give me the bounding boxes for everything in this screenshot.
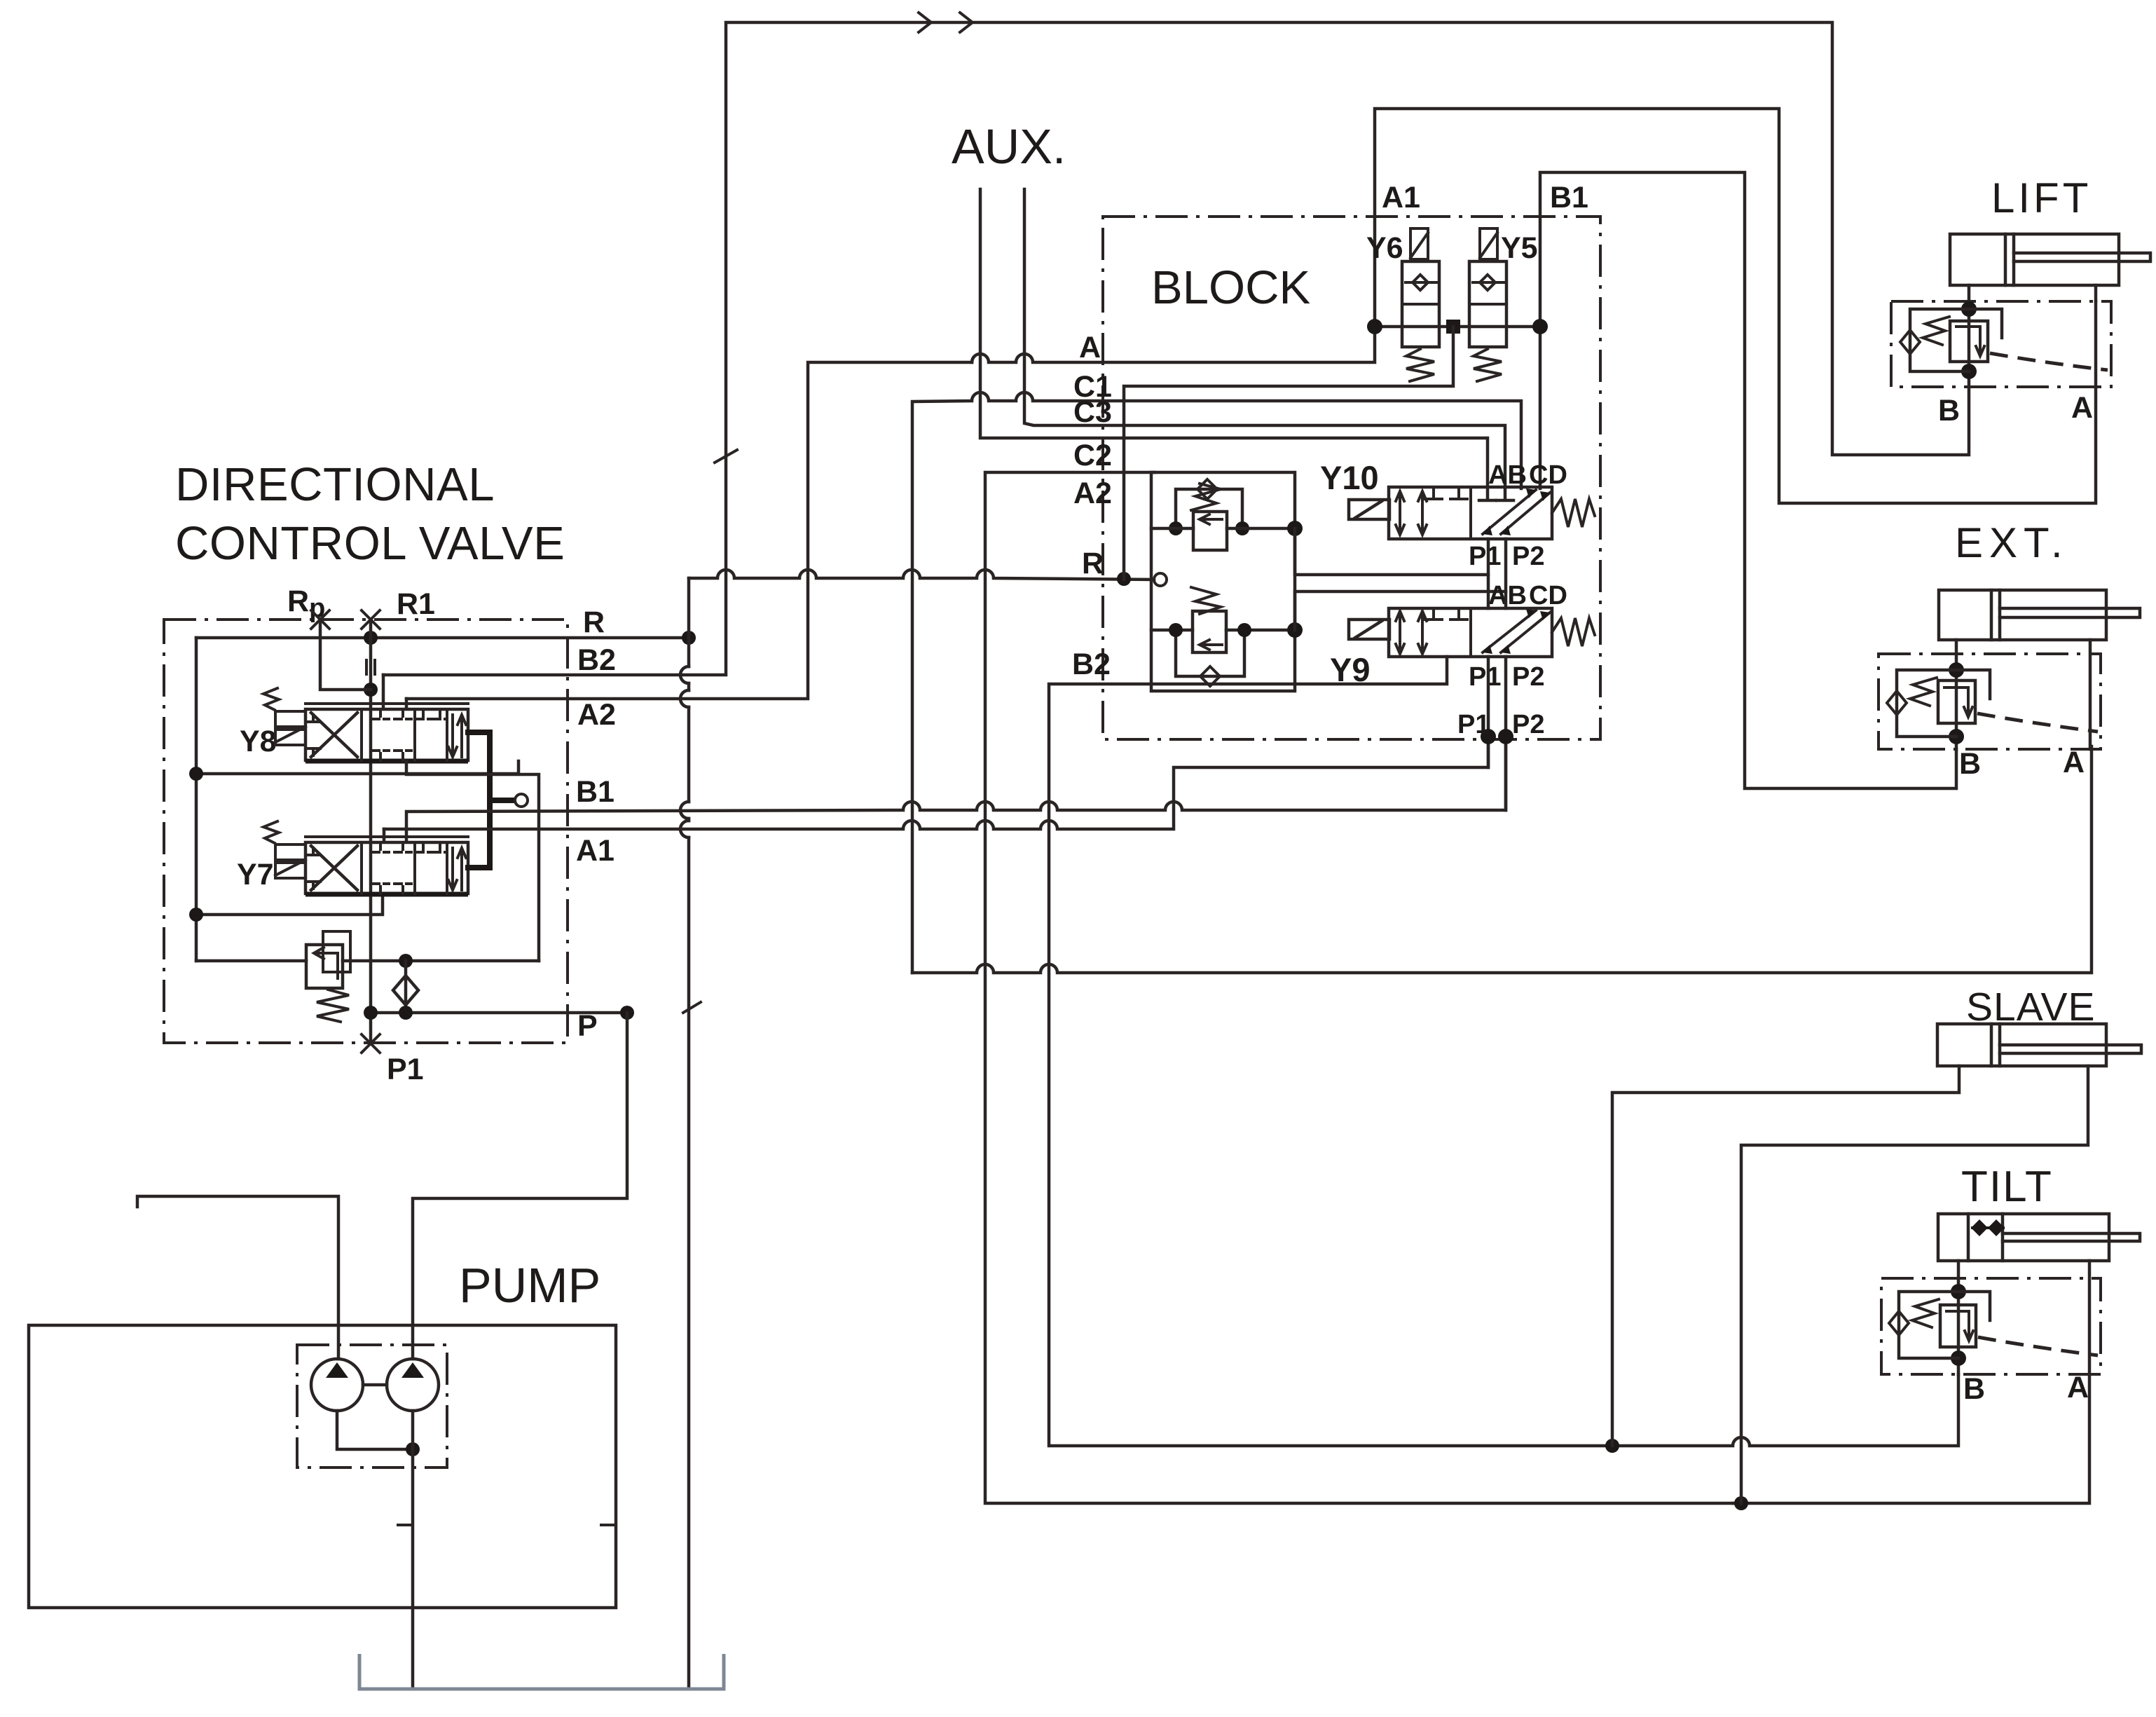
svg-text:LIFT: LIFT bbox=[1991, 175, 2092, 221]
closed port X at R1 bbox=[362, 610, 380, 629]
svg-text:P1: P1 bbox=[1469, 662, 1501, 692]
wire P2 vertical between valves bbox=[1504, 539, 1508, 810]
node junction R drain bbox=[1117, 572, 1131, 586]
pump right triangle bbox=[401, 1362, 424, 1378]
LIFT lock valve arrow bbox=[1956, 327, 1984, 356]
wire C1 cross line to EXT A bbox=[912, 746, 2092, 973]
LIFT lock block dash-dot bbox=[1891, 301, 2111, 387]
LIFT B riser through block bbox=[1968, 301, 1971, 387]
svg-text:R: R bbox=[583, 606, 605, 639]
wire B2 line DCV to top riser bbox=[383, 22, 1969, 675]
node junction LIFT lower bbox=[1961, 364, 1977, 379]
closed port X at P1 bbox=[362, 1034, 380, 1053]
node junction gallery A1 bbox=[1367, 319, 1382, 334]
relief lower line bbox=[1151, 629, 1295, 632]
valve Y5 solenoid box bbox=[1480, 228, 1497, 259]
label DIRECTIONAL CONTROL VALVE bbox=[175, 458, 565, 570]
svg-text:A2: A2 bbox=[1073, 477, 1112, 510]
node junction pump drain bbox=[406, 1442, 420, 1456]
wire P1 vertical between valves bbox=[1487, 539, 1490, 767]
tank enclosure rectangle bbox=[29, 1325, 616, 1608]
svg-text:DIRECTIONAL: DIRECTIONAL bbox=[175, 458, 495, 511]
wire Y6-Y5 gallery bbox=[1375, 325, 1540, 329]
node junction lower bypass left bbox=[1169, 623, 1183, 637]
DCV enclosure dash-dot box bbox=[164, 620, 568, 1043]
valve Y9 spring bbox=[1552, 618, 1595, 646]
valve Y9 body bbox=[1389, 608, 1552, 657]
svg-text:B1: B1 bbox=[576, 775, 614, 809]
valve Y10 solenoid bbox=[1349, 500, 1389, 519]
svg-text:Y6: Y6 bbox=[1366, 231, 1403, 265]
check valve CV1 bbox=[393, 961, 418, 1013]
relief valve upper body bbox=[1193, 512, 1227, 550]
LIFT cylinder body bbox=[1950, 234, 2150, 285]
svg-text:A: A bbox=[2071, 391, 2093, 425]
return riser hop arcs bbox=[680, 666, 689, 837]
wire upper relief output gallery bbox=[1295, 528, 1488, 575]
wire suction line bbox=[137, 1196, 338, 1359]
hop A-line over AUX1 bbox=[972, 109, 2096, 503]
wire Y8 bottom port to B1 riser bbox=[406, 761, 539, 961]
relief entry circle bbox=[1154, 573, 1167, 586]
wire P line bbox=[371, 1011, 627, 1015]
svg-text:Y8: Y8 bbox=[240, 725, 277, 758]
wire SLAVE B riser bbox=[1612, 1066, 1959, 1446]
node junction P at check bbox=[399, 1006, 413, 1020]
LIFT cylinder ports bbox=[1969, 285, 2096, 301]
wire P riser from pump bbox=[413, 1013, 627, 1359]
LIFT lock loop with check bbox=[1900, 309, 2002, 371]
svg-text:A2: A2 bbox=[577, 698, 616, 732]
wire relief branch line bbox=[196, 959, 539, 963]
node junction R1-R bbox=[364, 631, 378, 645]
svg-text:TILT: TILT bbox=[1961, 1163, 2053, 1211]
node junction TILT lower bbox=[1951, 1350, 1966, 1366]
wire A1 stub to Y7 bbox=[383, 829, 386, 841]
relief valve lower spring bbox=[1191, 587, 1221, 614]
node junction left-vertical tank Y7 bbox=[189, 908, 203, 922]
wire R return extension to block bbox=[689, 570, 1154, 580]
wire gallery mid drain bbox=[1124, 327, 1453, 580]
relief valve RV1 spring bbox=[317, 990, 349, 1022]
node junction P1 bottom bbox=[1481, 729, 1496, 744]
wire B2 stub from Y8 bbox=[382, 675, 385, 708]
wire C1 line from riser to Y10 bbox=[912, 392, 1521, 973]
svg-text:P1: P1 bbox=[1457, 710, 1490, 739]
svg-text:P2: P2 bbox=[1512, 542, 1544, 571]
relief upper line bbox=[1151, 527, 1295, 531]
svg-text:BLOCK: BLOCK bbox=[1151, 261, 1310, 314]
wire pump outlet down to tank bbox=[411, 1411, 415, 1689]
relief valve lower arrow bbox=[1200, 640, 1222, 650]
wire lower relief output gallery bbox=[1295, 591, 1506, 630]
relief upper bypass with check bbox=[1176, 479, 1242, 528]
svg-text:C3: C3 bbox=[1073, 395, 1112, 429]
valve Y6 body bbox=[1402, 261, 1439, 347]
node junction left-vertical tank Y8 bbox=[189, 767, 203, 781]
valve Y6 solenoid box bbox=[1410, 228, 1428, 259]
relief valve RV1 ghost box bbox=[323, 931, 350, 972]
wire Y8 tank line bbox=[196, 761, 519, 774]
solenoid Y7 pilot box bbox=[275, 844, 305, 878]
closed port X at Ro bbox=[311, 610, 329, 629]
svg-text:P2: P2 bbox=[1512, 710, 1544, 739]
svg-text:B: B bbox=[1938, 394, 1960, 427]
TILT B riser through block bbox=[1957, 1261, 1961, 1374]
EXT lock loop with check bbox=[1887, 670, 1990, 737]
relief valve RV1 body bbox=[306, 945, 343, 988]
TILT cylinder body bbox=[1938, 1214, 2140, 1261]
solenoid valve Y7 body bbox=[305, 837, 468, 894]
TILT lock valve square bbox=[1940, 1305, 1976, 1347]
wire DCV left vertical bbox=[195, 638, 198, 961]
svg-text:Y9: Y9 bbox=[1330, 651, 1371, 688]
svg-text:Y10: Y10 bbox=[1320, 459, 1379, 496]
TILT shock symbol diamonds bbox=[1971, 1219, 2005, 1236]
lever knob circle bbox=[515, 794, 528, 807]
manual lever with knob bbox=[490, 798, 513, 803]
wire Y8-Y7 carryover bold bbox=[468, 732, 490, 868]
pump case drain loop bbox=[337, 1411, 413, 1449]
LIFT A riser through block bbox=[2094, 301, 2098, 387]
node junction slave B tee bbox=[1605, 1439, 1619, 1453]
valve Y6 spring bbox=[1406, 349, 1434, 381]
pump circle left bbox=[311, 1359, 363, 1411]
node junction lower bypass right bbox=[1237, 623, 1251, 637]
svg-text:P1: P1 bbox=[387, 1053, 424, 1086]
relief valve upper arrow bbox=[1200, 514, 1222, 524]
wire B1 block top to EXT B bbox=[1540, 172, 1956, 788]
pump link line bbox=[363, 1383, 387, 1387]
valve Y5 body bbox=[1469, 261, 1506, 347]
svg-text:Y7: Y7 bbox=[237, 858, 274, 891]
wire R1 center vertical through valves bbox=[369, 620, 373, 1044]
TILT A riser through block bbox=[2088, 1261, 2092, 1374]
EXT A riser through block bbox=[2089, 640, 2092, 749]
wire return riser to tank bbox=[687, 578, 691, 1689]
relief lower bypass with check bbox=[1176, 630, 1244, 686]
svg-text:AB: AB bbox=[1488, 460, 1527, 490]
node junction relief to check bbox=[399, 954, 413, 968]
EXT lock spring bbox=[1910, 678, 1937, 706]
LIFT lock valve square bbox=[1950, 321, 1988, 362]
svg-text:B2: B2 bbox=[577, 643, 616, 677]
wire B2 block line down bbox=[1049, 657, 1958, 1446]
svg-text:C2: C2 bbox=[1073, 439, 1112, 472]
TILT lock block dash-dot bbox=[1881, 1278, 2101, 1374]
wire Y7 tank line bbox=[196, 894, 383, 915]
break tick on B2 riser bbox=[715, 450, 737, 463]
TILT lock valve arrow bbox=[1946, 1311, 1973, 1341]
node junction upper bypass right bbox=[1235, 521, 1249, 535]
svg-text:PUMP: PUMP bbox=[459, 1258, 600, 1313]
wire Ro drop and link bbox=[320, 620, 371, 690]
flow arrows on top line bbox=[919, 13, 973, 32]
svg-text:AUX.: AUX. bbox=[952, 119, 1066, 174]
node junction TILT upper bbox=[1951, 1284, 1966, 1299]
node junction below orifice bbox=[364, 683, 378, 697]
wire C2 line riser down bbox=[985, 472, 1733, 1503]
node junction P corner bbox=[620, 1006, 634, 1020]
TILT pilot dashed bbox=[1978, 1337, 2098, 1355]
node junction lower output bbox=[1287, 622, 1303, 638]
valve Y10 body bbox=[1389, 487, 1552, 539]
pump left triangle bbox=[326, 1362, 348, 1378]
svg-text:R1: R1 bbox=[397, 587, 435, 621]
node junction gallery B1 bbox=[1532, 319, 1548, 334]
svg-text:P1: P1 bbox=[1469, 542, 1501, 571]
svg-text:A: A bbox=[2063, 746, 2085, 779]
wire A2 line DCV to A riser bbox=[406, 362, 972, 699]
node junction LIFT upper bbox=[1961, 301, 1977, 317]
tick on pump drop line bbox=[398, 1524, 412, 1526]
EXT B riser through block bbox=[1955, 640, 1958, 749]
pump unit dash-dot box bbox=[297, 1345, 447, 1468]
svg-text:CD: CD bbox=[1529, 581, 1567, 610]
relief valve upper spring bbox=[1191, 484, 1221, 510]
pump circle right bbox=[387, 1359, 439, 1411]
svg-text:CONTROL VALVE: CONTROL VALVE bbox=[175, 517, 565, 570]
svg-text:A1: A1 bbox=[1382, 181, 1420, 214]
svg-text:A: A bbox=[1079, 331, 1101, 364]
svg-text:A1: A1 bbox=[576, 834, 614, 868]
tank symbol cup bbox=[359, 1654, 724, 1689]
node junction upper output bbox=[1287, 521, 1303, 536]
solenoid Y7 spring bbox=[263, 821, 279, 843]
EXT lock valve square bbox=[1938, 680, 1975, 723]
break tick on return riser bbox=[683, 1002, 701, 1013]
wire A2 stub from Y8 bbox=[405, 699, 408, 708]
solenoid Y8 pilot box bbox=[275, 711, 305, 745]
wire R line inside DCV bbox=[196, 636, 683, 640]
wire A1 line to block P1 bbox=[384, 737, 1488, 829]
svg-text:EXT.: EXT. bbox=[1955, 519, 2069, 566]
svg-text:CD: CD bbox=[1529, 460, 1567, 490]
orifice mark on R1 line bbox=[366, 660, 375, 674]
TILT lock loop with check bbox=[1889, 1292, 1990, 1358]
wire AUX vertical 2 bbox=[1024, 189, 1513, 500]
svg-text:R: R bbox=[1082, 547, 1104, 580]
valve Y5 spring bbox=[1474, 349, 1502, 381]
relief subblock box bbox=[1151, 472, 1295, 691]
node junction R-return bbox=[682, 631, 696, 645]
relief valve lower body bbox=[1193, 611, 1226, 652]
EXT lock valve arrow bbox=[1944, 688, 1972, 717]
wire B1 line to block P2 bbox=[406, 737, 1506, 841]
tick on tank wall bbox=[601, 1524, 615, 1526]
svg-text:P2: P2 bbox=[1512, 662, 1544, 692]
svg-text:A: A bbox=[2067, 1371, 2089, 1404]
SLAVE cylinder body bbox=[1937, 1024, 2141, 1066]
valve Y9 solenoid bbox=[1349, 620, 1389, 639]
relief valve RV1 arrow bbox=[314, 948, 338, 978]
svg-text:B: B bbox=[1959, 747, 1981, 781]
EXT cylinder body bbox=[1939, 590, 2140, 640]
svg-text:AB: AB bbox=[1488, 581, 1527, 610]
wire AUX vertical 1 bbox=[980, 189, 1496, 500]
node junction P2 bottom bbox=[1498, 729, 1513, 744]
EXT lock block dash-dot bbox=[1879, 654, 2101, 749]
LIFT lock spring bbox=[1923, 317, 1949, 345]
EXT pilot dashed bbox=[1977, 713, 2098, 732]
solenoid valve Y8 body bbox=[305, 704, 468, 761]
node junction slave-right feed bbox=[1734, 1496, 1748, 1510]
node junction upper bypass left bbox=[1169, 521, 1183, 535]
node junction EXT lower bbox=[1949, 729, 1964, 744]
wire SLAVE right port line bbox=[1741, 1066, 2088, 1503]
svg-text:B: B bbox=[1963, 1372, 1985, 1406]
node junction gallery mid bbox=[1446, 320, 1460, 334]
solenoid Y8 spring bbox=[263, 688, 279, 710]
node junction EXT upper bbox=[1949, 662, 1964, 678]
TILT lock spring bbox=[1912, 1299, 1939, 1327]
BLOCK enclosure dash-dot box bbox=[1103, 217, 1600, 739]
svg-text:B2: B2 bbox=[1072, 648, 1111, 681]
valve Y10 spring bbox=[1552, 499, 1595, 527]
wire C2 line to TILT A bbox=[1733, 1374, 2089, 1503]
svg-text:B1: B1 bbox=[1550, 181, 1588, 214]
LIFT pilot dashed bbox=[1990, 353, 2108, 370]
node junction P at R1 bbox=[364, 1006, 378, 1020]
